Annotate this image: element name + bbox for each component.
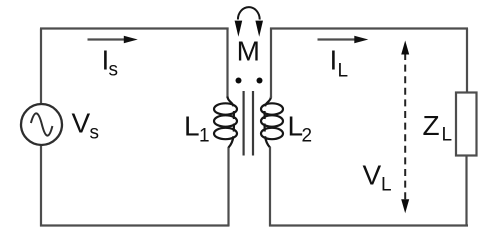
wire left side below source	[40, 145, 42, 227]
svg-text:L: L	[442, 125, 453, 146]
wire bottom of right loop	[269, 224, 468, 226]
wire top of right loop	[270, 27, 468, 29]
wire secondary bottom drop	[269, 147, 271, 227]
voltage VL dashed arrow	[404, 53, 406, 200]
wire primary top drop	[226, 28, 228, 99]
svg-text:s: s	[90, 123, 100, 144]
svg-text:L: L	[184, 111, 200, 142]
polarity dot primary	[236, 78, 242, 84]
svg-text:Z: Z	[423, 110, 440, 141]
transformer core	[243, 91, 245, 156]
svg-text:I: I	[330, 45, 338, 76]
svg-text:2: 2	[302, 126, 313, 147]
wire left side (source branch)	[40, 29, 42, 105]
wire primary bottom drop	[227, 147, 229, 227]
current arrow IL	[318, 38, 357, 40]
sine wave inside source	[31, 113, 53, 135]
wire secondary top drop	[270, 28, 272, 99]
svg-text:V: V	[363, 160, 382, 191]
source Vs (AC source circle)	[21, 104, 62, 145]
wire top of left loop	[40, 27, 229, 29]
svg-text:L: L	[381, 175, 392, 196]
mutual coupling arc M	[238, 7, 260, 19]
svg-text:s: s	[109, 60, 119, 81]
svg-text:M: M	[237, 36, 260, 67]
inductor L1 (primary coil)	[214, 97, 237, 148]
wire right side above load	[466, 29, 468, 94]
current arrow Is	[88, 38, 127, 40]
svg-text:1: 1	[199, 126, 210, 147]
svg-text:V: V	[72, 108, 91, 139]
polarity dot secondary	[257, 78, 263, 84]
inductor L2 (secondary coil)	[261, 97, 283, 148]
load ZL box	[456, 93, 477, 156]
wire right side below load	[465, 155, 467, 227]
svg-text:L: L	[338, 61, 349, 82]
wire bottom of left loop	[40, 224, 229, 226]
